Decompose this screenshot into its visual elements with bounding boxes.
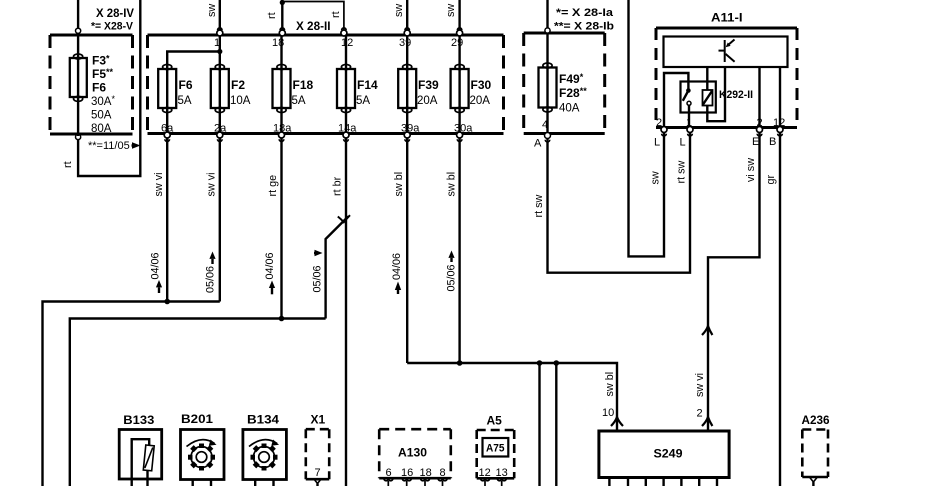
B134 pins [255, 480, 273, 486]
svg-text:39a: 39a [401, 123, 420, 135]
svg-text:B133: B133 [123, 413, 154, 427]
change arrow 2a 05/06 [209, 252, 215, 265]
F49 bottom terminal A [545, 133, 551, 139]
wire sw to pin39 [406, 0, 408, 31]
fuse F30 [451, 35, 469, 134]
B133 pins [132, 479, 148, 486]
svg-text:A: A [534, 138, 542, 150]
svg-text:L: L [680, 137, 686, 149]
svg-text:**= X 28-Ib: **= X 28-Ib [554, 21, 614, 33]
svg-text:6a: 6a [161, 123, 174, 135]
junction 18a/bus2 [279, 316, 285, 322]
svg-text:K292-II: K292-II [719, 89, 753, 101]
svg-text:05/06: 05/06 [446, 264, 458, 291]
arrowhead diagonal (curled chevron) [338, 215, 350, 222]
svg-text:20A: 20A [470, 95, 491, 107]
X28-IV bottom terminal [76, 134, 81, 139]
svg-text:14a: 14a [338, 123, 357, 135]
B201 box [181, 430, 225, 480]
svg-text:7: 7 [315, 467, 321, 479]
A11-I box [656, 28, 797, 128]
svg-text:6: 6 [386, 467, 392, 479]
change arrow 14a 05/06 (right) [314, 250, 323, 256]
svg-text:rt: rt [330, 11, 342, 18]
svg-text:E: E [752, 136, 759, 148]
X28-II bottom terminals 6a,2a,18a,14a,39a,30a [164, 132, 462, 142]
junction dot pin1 branch [217, 49, 222, 54]
wire drop from bus3 [538, 363, 540, 486]
svg-text:5A: 5A [356, 95, 370, 107]
svg-text:40A: 40A [559, 103, 580, 115]
change arrow 6a 04/06 [156, 280, 162, 293]
A130 terminals [384, 478, 447, 486]
svg-text:12: 12 [341, 37, 353, 49]
svg-text:04/06: 04/06 [391, 253, 403, 280]
svg-text:L: L [654, 137, 660, 149]
svg-text:**=11/05: **=11/05 [88, 140, 130, 152]
X28-II box [148, 35, 504, 134]
wire sw to pin29 [458, 0, 460, 31]
svg-text:rt ge: rt ge [267, 175, 279, 197]
svg-text:gr: gr [765, 174, 777, 184]
svg-text:2: 2 [656, 117, 662, 129]
svg-text:A5: A5 [487, 414, 503, 428]
wire rt from top edge to X28-IV [78, 0, 140, 176]
arrowhead mid vi sw [702, 326, 712, 335]
X28-IV top terminal [76, 28, 81, 33]
wire sw vi from 6a [166, 138, 168, 302]
wire sw loop from top to A11-I pin2 [629, 0, 665, 256]
fuse F49/F28 [546, 33, 548, 134]
A236 box [802, 430, 828, 478]
B133 sensor symbol [132, 439, 150, 479]
change arrow 30a 05/06 [448, 251, 454, 263]
wire gr from pin B down [779, 133, 781, 486]
svg-text:29: 29 [451, 37, 463, 49]
F49/F28 fuse box (X28-Ia/Ib) [524, 33, 605, 134]
svg-text:20A: 20A [417, 95, 438, 107]
bus2 [70, 319, 326, 486]
junction drop2 [554, 360, 560, 366]
wire electronics to pin B [779, 67, 781, 131]
change arrow 11/05 (right, below X28-IV) [132, 142, 141, 149]
svg-text:F2: F2 [231, 78, 245, 92]
wire rt br from 14a down full [345, 138, 347, 486]
bus3 [407, 363, 617, 431]
wire sw bl from 39a [406, 138, 408, 363]
svg-text:1: 1 [214, 37, 220, 49]
svg-text:rt sw: rt sw [533, 195, 545, 218]
wire sw to pin1 X28-II [219, 0, 221, 31]
A11-I electronics block [664, 37, 788, 68]
svg-text:rt br: rt br [332, 176, 344, 196]
svg-text:A11-I: A11-I [711, 11, 743, 25]
A5 terminals [481, 478, 507, 486]
change arrow 39a 04/06 [395, 282, 401, 295]
svg-text:sw: sw [393, 4, 405, 17]
svg-text:F6: F6 [92, 81, 106, 95]
fuse F39 [398, 35, 416, 134]
wire tie pin18-pin12 [282, 2, 344, 32]
svg-text:F18: F18 [293, 78, 314, 92]
svg-text:X1: X1 [311, 413, 326, 427]
svg-text:vi sw: vi sw [745, 158, 757, 182]
svg-text:50A: 50A [91, 110, 112, 122]
svg-text:X 28-II: X 28-II [296, 19, 331, 33]
junction 30a/bus3 [457, 360, 463, 366]
svg-text:sw vi: sw vi [206, 173, 218, 197]
fuse F18 [273, 35, 291, 134]
arrowhead S249 pin10 [611, 417, 623, 426]
junction 6a/bus1 [164, 299, 170, 305]
junction drop1 [537, 360, 543, 366]
svg-text:X 28-IV: X 28-IV [96, 6, 134, 20]
bus1 [43, 302, 220, 486]
svg-text:*= X 28-Ia: *= X 28-Ia [556, 7, 614, 19]
svg-text:16: 16 [401, 467, 413, 479]
svg-text:18: 18 [272, 37, 284, 49]
svg-text:80A: 80A [91, 123, 112, 135]
fuse F6 [158, 64, 176, 134]
wire rt sw from F49 A to A11-I pin1 [548, 131, 691, 273]
svg-text:sw bl: sw bl [393, 172, 405, 197]
svg-text:5A: 5A [292, 95, 306, 107]
relay switch contact [686, 88, 691, 93]
svg-text:A236: A236 [802, 413, 830, 427]
svg-text:18a: 18a [273, 123, 292, 135]
svg-text:S249: S249 [654, 447, 683, 461]
svg-text:30a: 30a [454, 123, 473, 135]
wire sw bl from 30a [458, 138, 460, 363]
wire rt to pin18 X28-II [281, 0, 283, 31]
svg-text:B201: B201 [181, 412, 213, 426]
svg-text:sw bl: sw bl [604, 372, 616, 397]
svg-text:F39: F39 [418, 78, 439, 92]
wire from top edge into X28-IV top terminal [77, 0, 79, 29]
transistor symbol [719, 40, 735, 63]
A5 box [477, 430, 515, 478]
X28-II top terminals pins 1,18,12,39,29 [217, 28, 463, 36]
B201 gear symbol [187, 440, 217, 471]
wire switch to pin1 [688, 105, 690, 127]
relay coil K292-II [706, 67, 708, 90]
svg-text:05/06: 05/06 [312, 265, 324, 292]
svg-text:F6: F6 [179, 78, 193, 92]
svg-text:13: 13 [496, 467, 508, 479]
svg-text:sw: sw [650, 171, 662, 184]
svg-text:A75: A75 [486, 443, 505, 455]
svg-text:05/06: 05/06 [205, 266, 217, 293]
B201 pins [193, 480, 211, 486]
A75 inner box [483, 438, 509, 457]
wire to F49 box top [546, 0, 548, 28]
change arrow 18a 04/06 [269, 281, 275, 295]
A11-I internal wire pin2 to switch [664, 73, 688, 128]
wire drop2 from bus3 [555, 363, 557, 486]
svg-text:rt: rt [62, 161, 74, 168]
svg-text:2: 2 [757, 117, 763, 129]
svg-text:B134: B134 [247, 413, 279, 427]
wire vi sw from pin E to S249 pin2 [708, 133, 760, 432]
svg-text:F14: F14 [357, 78, 378, 92]
X28-IV box [50, 35, 133, 134]
svg-text:sw vi: sw vi [153, 173, 165, 197]
svg-text:B: B [769, 136, 776, 148]
svg-text:sw: sw [445, 4, 457, 17]
svg-text:*= X28-V: *= X28-V [91, 21, 134, 33]
svg-text:sw: sw [206, 4, 218, 17]
svg-text:4: 4 [542, 119, 548, 131]
wire rt ge from 18a [280, 138, 282, 319]
wire sw vi from 2a [219, 138, 221, 302]
X1 connector box [306, 429, 329, 479]
svg-text:sw bl: sw bl [446, 172, 458, 197]
X1 terminal 7 [314, 479, 322, 484]
junction top tie [280, 0, 285, 5]
A130 box [379, 429, 451, 478]
S249 bottom pins [609, 478, 717, 486]
svg-text:A130: A130 [398, 446, 427, 460]
svg-text:10A: 10A [230, 95, 251, 107]
X28-II internal branch pin1 to F6/F2 [167, 35, 220, 66]
arrowhead S249 pin2 [702, 417, 712, 426]
A11-I bottom terminals 2,1,2,12 [661, 127, 783, 137]
svg-text:sw vi: sw vi [694, 373, 706, 397]
B133 box [119, 430, 162, 480]
svg-text:5A: 5A [178, 95, 192, 107]
svg-text:39: 39 [399, 37, 411, 49]
svg-text:rt sw: rt sw [676, 161, 688, 184]
svg-text:18: 18 [420, 467, 432, 479]
svg-text:rt: rt [266, 12, 278, 19]
branch diagonal 14a to bus2 [326, 216, 349, 318]
svg-text:04/06: 04/06 [150, 252, 162, 279]
coil return wire [707, 67, 725, 121]
A236 terminal [809, 477, 817, 482]
B134 gear symbol [249, 440, 279, 471]
svg-text:12: 12 [479, 467, 491, 479]
B134 box [243, 430, 287, 480]
svg-text:2a: 2a [214, 123, 227, 135]
svg-text:10: 10 [602, 407, 614, 419]
fuse F14 [337, 35, 355, 134]
S249 box [599, 431, 729, 478]
fuse F3/F5/F6 in X28-IV [77, 33, 79, 136]
svg-text:12: 12 [773, 117, 785, 129]
svg-text:F30: F30 [471, 78, 492, 92]
svg-text:1: 1 [686, 117, 692, 129]
wire electronics to pin E [758, 67, 760, 131]
svg-text:2: 2 [697, 408, 703, 420]
svg-text:8: 8 [440, 467, 446, 479]
fuse F2 [211, 52, 229, 134]
svg-text:04/06: 04/06 [264, 252, 276, 279]
F49 top terminal [545, 28, 550, 33]
K292-II relay box [681, 82, 716, 113]
